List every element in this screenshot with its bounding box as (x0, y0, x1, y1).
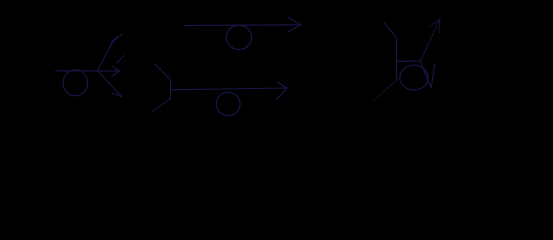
reaction arrow 2 shaft (171, 88, 288, 90)
right molecule: horizontal bond (397, 60, 421, 62)
O atom circle (left molecule) (63, 70, 88, 96)
wire: left horizontal bond/shaft to O (56, 70, 120, 72)
faint tick right of vertex (117, 55, 124, 63)
bracket: vertical segment (170, 80, 172, 100)
O circle under arrow 1 (226, 25, 251, 49)
arrowhead on left horizontal shaft (112, 66, 120, 77)
right molecule: up-right arrow shaft (421, 19, 441, 61)
reaction arrow 1 head (288, 17, 301, 31)
right molecule: lower-left diagonal bond (385, 80, 397, 90)
reaction arrow 1 shaft (184, 24, 301, 27)
tick crossing up-right stroke (111, 37, 118, 43)
right molecule: narrow V right arm (431, 64, 435, 88)
right molecule: narrow V left arm (421, 62, 432, 88)
bracket: lower diagonal of angle shape (152, 99, 170, 112)
right molecule: vertical bond (396, 38, 398, 80)
bond: up-right curved stroke from vertex (97, 34, 123, 71)
barb of down-right arrowhead (112, 93, 123, 97)
O circle under arrow 2 (216, 92, 240, 115)
right molecule: ring circle (400, 65, 428, 90)
right molecule: top-left diagonal bond (384, 23, 397, 39)
reaction arrow 2 head (276, 82, 287, 100)
right molecule: up-right arrow head (429, 19, 440, 33)
bond: down-right stroke from vertex (98, 71, 122, 97)
bracket: upper diagonal of angle shape (155, 64, 171, 80)
